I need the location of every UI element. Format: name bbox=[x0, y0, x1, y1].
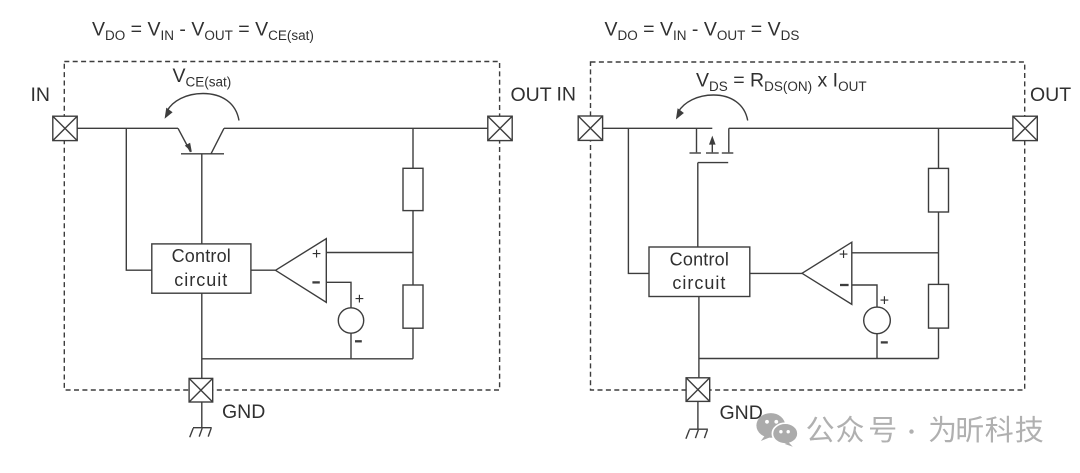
wire: op-amp + input to feedback node (right) bbox=[852, 252, 939, 254]
ground symbol (right) bbox=[686, 429, 708, 439]
wire: R2 to ground rail bbox=[412, 328, 414, 359]
wire: op-amp - input to reference bbox=[326, 282, 351, 308]
svg-text:OUT: OUT bbox=[1030, 84, 1071, 106]
wire: control circuit down to GND terminal bbox=[201, 293, 203, 378]
watermark text 公众号·为昕科技 bbox=[807, 416, 1043, 443]
terminal IN (left circuit) bbox=[53, 116, 77, 140]
wire: feedback divider top (right) bbox=[938, 128, 940, 168]
terminal IN (right circuit) bbox=[578, 116, 602, 140]
resistor R1 (left upper feedback) bbox=[403, 168, 423, 210]
control circuit U1 (left) bbox=[152, 244, 251, 293]
svg-text:circuit: circuit bbox=[672, 273, 726, 293]
terminal GND (left circuit) bbox=[189, 378, 213, 402]
wire: rail branch down to control circuit input bbox=[126, 128, 152, 270]
wire: feedback divider top bbox=[412, 128, 414, 168]
svg-text:GND: GND bbox=[720, 402, 763, 424]
terminal OUT (right circuit) bbox=[1013, 116, 1037, 140]
op-amp U4 (right error amplifier) bbox=[802, 242, 852, 304]
resistor R4 (right lower feedback) bbox=[929, 284, 949, 328]
voltage reference V2 (right) bbox=[864, 293, 891, 343]
wire: reference to ground rail bbox=[350, 333, 352, 359]
svg-text:+: + bbox=[355, 291, 364, 308]
wire: control circuit to op-amp output bbox=[251, 269, 276, 271]
resistor R3 (right upper feedback) bbox=[929, 168, 949, 212]
wire: ground rail (left) bbox=[202, 358, 413, 360]
svg-text:GND: GND bbox=[222, 401, 265, 423]
svg-text:Control: Control bbox=[670, 250, 729, 270]
svg-text:VDO = VIN - VOUT = VDS: VDO = VIN - VOUT = VDS bbox=[605, 19, 800, 44]
wire: op-amp - input to reference (right) bbox=[852, 285, 877, 307]
wire: rail branch down to control circuit input (right) bbox=[628, 128, 649, 273]
svg-text:IN: IN bbox=[557, 84, 577, 106]
VDS curved arrow bbox=[676, 95, 748, 121]
wire: transistor collector to OUT rail bbox=[224, 127, 488, 129]
svg-text:+: + bbox=[839, 246, 848, 263]
LDO1 package outline (dashed box) bbox=[64, 62, 499, 391]
svg-text:+: + bbox=[880, 293, 889, 310]
op-amp U2 (left error amplifier) bbox=[276, 239, 327, 303]
watermark WeChat icon bbox=[756, 413, 798, 447]
svg-text:VDS = RDS(ON) x IOUT: VDS = RDS(ON) x IOUT bbox=[696, 70, 867, 95]
wire: gate of Q2 down to control circuit bbox=[697, 163, 699, 247]
wire: GND terminal to ground symbol bbox=[201, 402, 203, 428]
wire: between R1 and R2 bbox=[412, 211, 414, 285]
terminal OUT (left circuit) bbox=[488, 116, 512, 140]
svg-text:IN: IN bbox=[31, 84, 51, 106]
transistor Q1 PNP pass element bbox=[178, 128, 224, 154]
LDO2 package outline (dashed box) bbox=[591, 62, 1025, 390]
wire: between R3 and R4 bbox=[938, 212, 940, 284]
wire: MOSFET drain to OUT rail bbox=[729, 127, 1013, 129]
wire: reference to ground rail (right) bbox=[876, 334, 878, 359]
ground symbol (left) bbox=[190, 428, 212, 438]
VCE(sat) curved arrow bbox=[165, 94, 239, 121]
resistor R2 (left lower feedback) bbox=[403, 285, 423, 328]
svg-text:Control: Control bbox=[172, 246, 231, 266]
wire: IN rail to MOSFET source/body bbox=[603, 127, 713, 129]
svg-text:+: + bbox=[312, 246, 321, 263]
wire: IN rail to transistor emitter bbox=[77, 127, 178, 129]
wire: control circuit to op-amp output (right) bbox=[750, 272, 802, 274]
wire: GND terminal to ground symbol (right) bbox=[697, 401, 699, 429]
voltage reference V1 (left) bbox=[338, 291, 364, 342]
wire: R4 to ground rail (right) bbox=[938, 328, 940, 358]
transistor Q2 PMOS pass element bbox=[690, 128, 734, 162]
wire: base of Q1 down to control circuit bbox=[201, 154, 203, 244]
control circuit U3 (right) bbox=[649, 247, 750, 297]
wire: control circuit down to GND terminal (right) bbox=[698, 297, 700, 378]
terminal GND (right circuit) bbox=[686, 378, 710, 402]
svg-text:VDO = VIN - VOUT = VCE(sat): VDO = VIN - VOUT = VCE(sat) bbox=[92, 19, 314, 44]
svg-text:OUT: OUT bbox=[511, 84, 552, 106]
svg-text:VCE(sat): VCE(sat) bbox=[173, 65, 232, 90]
wire: op-amp + input to feedback node bbox=[326, 252, 413, 254]
wire: ground rail (right) bbox=[699, 358, 939, 360]
svg-text:circuit: circuit bbox=[174, 270, 228, 290]
